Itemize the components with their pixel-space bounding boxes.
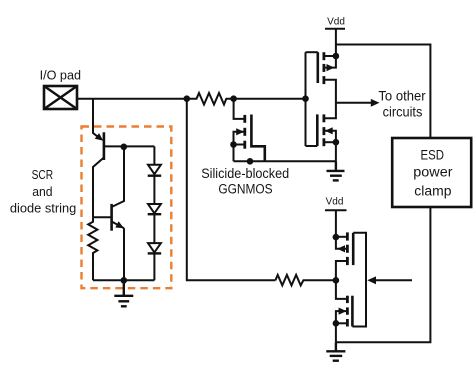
svg-text:Vdd: Vdd <box>326 197 344 208</box>
wire: Vdd to M4 source <box>335 210 337 237</box>
label: Vdd (bottom) <box>325 197 347 211</box>
wire: Vdd to M2 source <box>335 29 337 56</box>
SCR bottom rail <box>93 279 154 281</box>
wire: diode string spine <box>153 146 155 280</box>
wire: inverter gate node <box>306 52 318 146</box>
transistor Q2 (NPN) <box>93 146 124 280</box>
svg-text:circuits: circuits <box>383 103 423 119</box>
label: To other circuits <box>378 87 426 119</box>
svg-text:I/O pad: I/O pad <box>40 68 81 82</box>
svg-text:power: power <box>413 165 453 180</box>
node E (on ground rail) <box>247 158 254 165</box>
svg-text:diode string: diode string <box>10 200 76 215</box>
svg-text:Vdd: Vdd <box>327 17 345 28</box>
wire: node B to inverter gate node <box>234 98 306 100</box>
wire: Vdd rail to ESD clamp <box>336 45 431 139</box>
svg-text:GGNMOS: GGNMOS <box>218 182 272 197</box>
wire: pad to node A <box>77 98 188 100</box>
wire: driver gate node <box>352 233 366 327</box>
ground (SCR) <box>114 280 133 306</box>
resistor R1 <box>188 93 234 105</box>
svg-text:ESD: ESD <box>421 147 445 162</box>
I/O pad <box>44 86 77 109</box>
svg-text:SCR: SCR <box>32 168 54 182</box>
resistor R2 (SCR well resistor) <box>88 217 97 280</box>
label: SCR and diode string <box>10 168 76 215</box>
resistor R3 (driver output resistor) <box>275 275 336 286</box>
label: Vdd (top) <box>325 17 345 29</box>
wire: ESD clamp to bottom rail <box>336 207 431 342</box>
transistor M3 (NMOS of buffer) <box>317 103 339 161</box>
ESD power clamp box <box>392 138 471 207</box>
wire: Q1 base to diode string <box>104 145 154 147</box>
wire: output to other circuits (arrow) <box>336 99 380 107</box>
SCR enclosure (dashed orange box) <box>82 127 172 289</box>
transistor M2 (PMOS of buffer) <box>318 52 339 103</box>
signal arrow from internal circuits <box>367 276 412 284</box>
transistor M1 (silicide-blocked GGNMOS) <box>230 99 265 162</box>
diode D2 <box>148 204 162 214</box>
svg-text:Silicide-blocked: Silicide-blocked <box>201 166 289 181</box>
node G (driver output) <box>333 277 340 284</box>
label: Silicide-blocked GGNMOS <box>201 166 289 197</box>
transistor M5 (NMOS of output driver) <box>333 280 353 342</box>
node F (gate node) <box>302 95 309 102</box>
transistor Q1 (PNP) <box>93 99 104 218</box>
node B (after R1) <box>230 95 237 102</box>
node C (Q1 base / Q2 collector) <box>121 144 128 151</box>
node A (pad net / bottom branch) <box>184 95 191 102</box>
wire: M1 source rail to ground <box>234 160 336 162</box>
transistor M4 (PMOS of output driver) <box>333 232 354 280</box>
label: ESD power clamp <box>413 147 453 198</box>
wire: node A down to bottom driver net <box>187 99 276 281</box>
svg-text:To other: To other <box>378 87 426 103</box>
ground (GGNMOS / inverter NMOS) <box>327 161 345 180</box>
svg-text:and: and <box>32 185 52 199</box>
diode D1 <box>148 165 162 176</box>
svg-text:clamp: clamp <box>414 184 451 199</box>
diode D3 <box>148 243 162 253</box>
ground (output driver) <box>326 342 345 360</box>
node D (SCR cathode) <box>121 277 128 284</box>
